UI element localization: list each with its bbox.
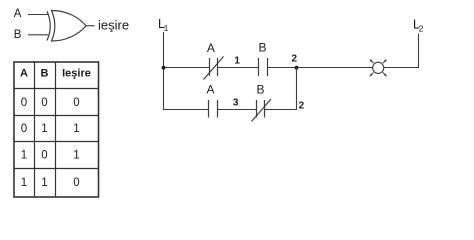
svg-text:Ieşire: Ieşire: [62, 68, 91, 80]
svg-text:1: 1: [234, 56, 240, 67]
svg-text:0: 0: [21, 123, 27, 135]
svg-text:2: 2: [299, 100, 305, 111]
truth table: [14, 62, 99, 197]
wire (rung 1: contact B to lamp): [268, 67, 373, 69]
wire (rung 2: contact A to contact B): [218, 109, 257, 111]
truth table rows: [21, 97, 80, 189]
wire (rung 1: rail to contact A): [164, 67, 210, 69]
svg-text:0: 0: [73, 97, 79, 109]
junction (L1 rail / rung 1): [162, 66, 166, 70]
XOR gate U1: [47, 10, 86, 41]
wire (lamp to L2 rail): [384, 67, 419, 69]
contact B2 (normally-closed, rung 2): [252, 99, 272, 122]
wire (rung 2: rail to contact A): [164, 109, 209, 111]
contact A1 (normally-closed, rung 1): [204, 57, 224, 80]
svg-text:1: 1: [73, 150, 79, 162]
svg-text:1: 1: [41, 123, 47, 135]
svg-text:1: 1: [21, 150, 27, 162]
svg-text:B: B: [256, 82, 264, 96]
svg-text:1: 1: [164, 23, 169, 33]
lamp ray arrowheads: [369, 59, 387, 77]
svg-text:3: 3: [233, 98, 239, 109]
svg-text:1: 1: [73, 123, 79, 135]
svg-text:0: 0: [41, 150, 47, 162]
svg-text:0: 0: [73, 177, 79, 189]
junction node 2: [295, 66, 299, 70]
svg-text:2: 2: [292, 54, 298, 65]
wire (input A to gate): [28, 14, 48, 16]
svg-text:A: A: [14, 8, 22, 20]
truth table header: [20, 68, 91, 80]
contact A2 (normally-open, rung 2): [209, 100, 218, 118]
wire (rung 2: contact B to riser): [265, 109, 297, 111]
svg-text:1: 1: [21, 177, 27, 189]
svg-text:1: 1: [41, 177, 47, 189]
svg-text:B: B: [41, 68, 49, 80]
contact B1 (normally-open, rung 1): [259, 58, 268, 76]
svg-text:0: 0: [41, 97, 47, 109]
svg-text:ieşire: ieşire: [98, 18, 129, 33]
svg-text:A: A: [206, 82, 214, 96]
wire (L2 power rail): [418, 34, 420, 69]
wire (input B to gate): [28, 34, 48, 36]
svg-text:A: A: [207, 41, 215, 55]
wire (L1 power rail): [163, 32, 165, 110]
svg-text:0: 0: [21, 97, 27, 109]
svg-text:2: 2: [419, 24, 424, 34]
net L1 label: [158, 17, 169, 33]
wire (rung 1: contact A to contact B): [218, 67, 259, 69]
wire (gate output): [86, 25, 95, 27]
lamp (output indicator): [372, 61, 385, 74]
svg-text:B: B: [14, 29, 22, 41]
net L2 label: [413, 17, 424, 33]
svg-text:A: A: [20, 68, 28, 80]
svg-text:B: B: [258, 40, 266, 54]
wire (riser from rung 2 up to node 2): [296, 68, 298, 111]
